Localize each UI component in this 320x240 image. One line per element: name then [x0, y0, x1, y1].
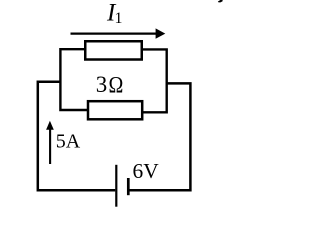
- svg-text:5A: 5A: [56, 131, 81, 153]
- svg-text:3: 3: [96, 72, 108, 97]
- svg-text:Ω: Ω: [109, 72, 124, 98]
- svg-text:1: 1: [115, 10, 123, 27]
- svg-text:6V: 6V: [133, 159, 160, 183]
